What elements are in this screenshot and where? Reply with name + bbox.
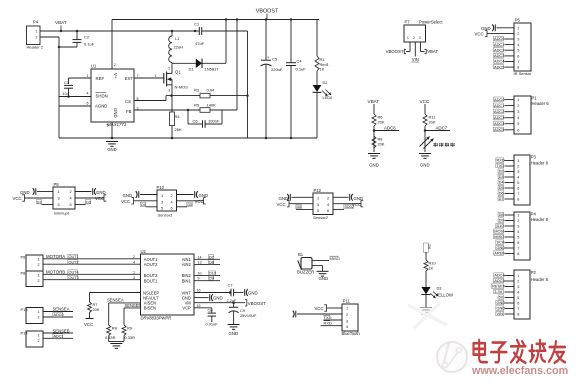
svg-text:U2: U2 — [141, 249, 147, 254]
svg-text:7: 7 — [517, 247, 519, 251]
svg-text:VCC: VCC — [95, 196, 104, 201]
wire P9 pin4 VCC — [75, 197, 104, 199]
svg-text:1: 1 — [517, 26, 519, 30]
svg-text:AREF: AREF — [494, 251, 505, 256]
wire C1 right to riser — [202, 30, 248, 32]
wire P1 pin5 ADC4 — [505, 123, 515, 125]
svg-text:VCC: VCC — [121, 199, 130, 204]
svg-text:ADC4: ADC4 — [494, 59, 505, 64]
net label D4 at P3 — [498, 180, 504, 184]
svg-text:ADC0: ADC0 — [494, 36, 505, 41]
wire P5 pin6 ADC3 — [505, 55, 515, 57]
capacitor C4 0.1uF — [290, 20, 292, 63]
svg-text:RESET: RESET — [492, 284, 506, 289]
svg-text:Header 2: Header 2 — [27, 44, 44, 49]
resistor R1 1K — [318, 19, 320, 21]
wire P10 pin1 GND — [140, 194, 157, 196]
ground below R8 R9 — [109, 341, 124, 343]
LED D3 YELLOW — [421, 287, 430, 294]
wire P2 pin8 VIN — [505, 313, 515, 315]
svg-text:2: 2 — [168, 67, 170, 71]
svg-text:47uF: 47uF — [195, 41, 205, 46]
svg-text:20K: 20K — [378, 120, 385, 125]
net label ADC2 at P5 — [493, 48, 503, 52]
svg-text:CS: CS — [125, 99, 131, 104]
ground below divider right — [419, 153, 431, 155]
connector P7 PowerSelect — [404, 25, 426, 42]
svg-text:D4: D4 — [141, 203, 146, 207]
svg-text:GND: GND — [229, 331, 239, 336]
wire NSLEEP to R7 — [90, 292, 141, 294]
svg-text:D10: D10 — [496, 223, 504, 228]
svg-text:6: 6 — [517, 241, 519, 245]
wire P2 pin6 GND — [505, 302, 515, 304]
svg-text:Interrupt: Interrupt — [54, 210, 70, 215]
wire P4 pin2 to ground rail — [40, 36, 59, 38]
wire P4b pin7 GND — [505, 247, 515, 249]
svg-text:1: 1 — [87, 74, 89, 78]
svg-text:P1: P1 — [532, 96, 538, 101]
svg-text:1: 1 — [161, 194, 163, 198]
svg-text:2: 2 — [517, 104, 519, 108]
svg-text:3: 3 — [133, 276, 135, 280]
capacitor C1 47uF — [194, 30, 197, 33]
wire P11 RXD — [321, 325, 343, 327]
svg-text:R9: R9 — [127, 326, 132, 331]
watermark white cross — [408, 305, 447, 325]
svg-text:5: 5 — [517, 122, 519, 126]
label photoresistor chinese — [434, 143, 438, 145]
svg-text:FB: FB — [126, 109, 132, 114]
svg-text:GND: GND — [496, 300, 505, 305]
svg-text:D10: D10 — [209, 272, 216, 276]
net label ADC4 at P1 — [493, 121, 503, 125]
svg-text:5: 5 — [58, 203, 60, 207]
svg-text:3: 3 — [517, 225, 519, 229]
svg-text:PowerSelect: PowerSelect — [419, 20, 443, 25]
svg-text:SHDN: SHDN — [96, 94, 108, 99]
svg-text:3: 3 — [517, 170, 519, 174]
resistor R8 0.33R — [107, 325, 111, 336]
svg-text:BISEN: BISEN — [144, 305, 156, 310]
photoresistor — [420, 137, 430, 147]
svg-text:ADC5: ADC5 — [494, 127, 504, 132]
svg-text:8: 8 — [517, 66, 519, 70]
svg-text:R4: R4 — [175, 114, 181, 119]
svg-text:D9: D9 — [499, 218, 504, 223]
svg-text:ADC0: ADC0 — [494, 97, 505, 102]
net label ADC0 at P5 — [493, 36, 503, 40]
net label ADC5 at P5 — [493, 65, 503, 69]
connector P4b Header 8 — [514, 212, 530, 260]
wire VCP to C8 — [194, 307, 212, 309]
svg-text:16: 16 — [197, 289, 201, 293]
wire P5 pin3 ADC0 — [505, 38, 515, 40]
connector P11 BlueTooth — [342, 304, 358, 331]
svg-text:4: 4 — [327, 203, 329, 207]
svg-text:C3: C3 — [64, 80, 69, 85]
wire P3 pin8 D7 — [505, 198, 515, 200]
svg-text:P4: P4 — [33, 20, 39, 25]
svg-text:4: 4 — [70, 197, 72, 201]
svg-text:4: 4 — [87, 92, 89, 96]
svg-text:5: 5 — [517, 236, 519, 240]
svg-text:TXD: TXD — [496, 163, 504, 168]
resistor R9 0.33R — [122, 325, 126, 336]
svg-text:D6: D6 — [427, 245, 431, 250]
wire MOTORB OUT3 — [43, 279, 141, 281]
wire P2 pin7 GND — [505, 308, 515, 310]
net label ADC2 at P1 — [493, 109, 503, 113]
svg-text:2: 2 — [70, 190, 72, 194]
svg-text:P5: P5 — [515, 18, 521, 23]
svg-text:4: 4 — [517, 43, 519, 47]
svg-text:2: 2 — [413, 36, 415, 40]
net label ADC4 at P5 — [493, 59, 503, 63]
wire P12 pin4 VCC — [333, 203, 361, 205]
wire P10 pin2 GND — [177, 194, 194, 196]
svg-text:OUT2: OUT2 — [69, 260, 79, 264]
svg-text:1: 1 — [407, 36, 409, 40]
svg-text:SENSEA: SENSEA — [107, 298, 124, 303]
svg-text:TXD: TXD — [324, 315, 332, 320]
wire Q1 source node — [171, 85, 173, 96]
wire REF to C3 — [69, 77, 92, 79]
svg-text:7: 7 — [137, 74, 139, 78]
svg-text:4: 4 — [517, 230, 519, 234]
wire P12 pin1 GND — [292, 196, 314, 198]
svg-text:AGND: AGND — [95, 104, 107, 109]
svg-text:GND: GND — [113, 108, 118, 118]
svg-text:P14: P14 — [21, 331, 29, 336]
svg-text:1: 1 — [517, 159, 519, 163]
svg-text:4: 4 — [133, 260, 135, 264]
wire VINT line — [194, 292, 230, 294]
svg-text:MOSI: MOSI — [494, 229, 504, 234]
net label SCK at P4b — [496, 240, 504, 244]
svg-text:R5: R5 — [194, 103, 200, 108]
capacitor C5 220uF — [265, 20, 267, 61]
svg-text:1: 1 — [517, 274, 519, 278]
svg-text:+: + — [267, 55, 270, 60]
svg-text:5V: 5V — [499, 295, 504, 300]
svg-text:C8: C8 — [208, 308, 213, 313]
net label D6 at LED column — [423, 243, 428, 252]
svg-text:VIN: VIN — [412, 57, 419, 62]
svg-text:C1: C1 — [194, 22, 200, 27]
svg-text:VBAT: VBAT — [368, 99, 380, 104]
svg-text:1: 1 — [517, 98, 519, 102]
resistor R10 1K — [424, 260, 428, 271]
svg-text:B1: B1 — [298, 252, 304, 257]
net label ADC3 at P1 — [493, 115, 503, 119]
wire P4b pin1 D8 — [505, 214, 515, 216]
net label ADC5 at P2 — [494, 278, 504, 282]
svg-text:MISO: MISO — [494, 234, 504, 239]
wire VBOOST top rail — [112, 19, 319, 21]
wire P2 pin4 3.3V — [505, 291, 515, 293]
net label ADC4 at P2 — [494, 273, 504, 277]
ground symbol below U1 — [111, 137, 114, 140]
wire to R10 — [425, 252, 427, 260]
wire P12 pin2 GND — [333, 196, 349, 198]
watermark text zi — [493, 343, 505, 350]
svg-text:Sensor2: Sensor2 — [313, 215, 329, 220]
svg-text:22uH: 22uH — [174, 45, 184, 50]
net label GND at P2 — [496, 300, 504, 304]
svg-text:L1: L1 — [175, 36, 180, 41]
svg-text:BUZZER: BUZZER — [297, 269, 314, 274]
net label ADC0 at P1 — [493, 97, 503, 101]
svg-text:GND: GND — [369, 163, 379, 168]
svg-text:ADC1: ADC1 — [494, 42, 504, 47]
wire P11 TXD — [324, 319, 343, 321]
svg-text:0.04: 0.04 — [207, 88, 216, 93]
wire P5 pin7 ADC4 — [505, 61, 515, 63]
svg-text:P8: P8 — [21, 271, 27, 276]
svg-text:1K: 1K — [429, 266, 434, 271]
net label TXD at P3 — [496, 163, 504, 167]
net label 5V at P2 — [498, 295, 504, 299]
net label D3 at P3 — [498, 174, 504, 178]
node ADC6 — [373, 126, 375, 152]
ground below D3 faded by watermark — [420, 307, 432, 309]
svg-text:P3: P3 — [531, 155, 537, 160]
svg-text:GND: GND — [319, 276, 329, 281]
svg-text:5: 5 — [517, 181, 519, 185]
svg-text:VCC: VCC — [315, 306, 324, 311]
wire P1 pin2 ADC1 — [505, 105, 515, 107]
resistor R11 20K — [423, 114, 427, 126]
wire P7 pin1 to VBOOST — [409, 42, 411, 52]
svg-text:13: 13 — [198, 260, 202, 264]
wire P1 pin6 ADC5 — [505, 129, 515, 131]
wire P12 pin5 D6 — [296, 208, 313, 210]
svg-text:MISO: MISO — [330, 256, 340, 261]
svg-text:D7: D7 — [499, 196, 504, 201]
svg-text:GND: GND — [420, 163, 430, 168]
wire SENSEB stub — [43, 332, 73, 334]
wire U1 GND pin to rail — [111, 122, 113, 138]
node ADC7 — [424, 126, 426, 152]
wire MOTORA OUT2 — [43, 263, 141, 265]
svg-text:D4: D4 — [499, 180, 505, 185]
wire AISEN SENSEA to R8 — [109, 302, 141, 304]
svg-text:2: 2 — [38, 316, 40, 320]
wire P1 pin3 ADC2 — [505, 111, 515, 113]
net label GND at P2 — [496, 306, 504, 310]
wire buzzer to ground — [312, 265, 323, 267]
svg-text:BOUT1: BOUT1 — [144, 278, 158, 283]
svg-text:5: 5 — [317, 209, 319, 213]
svg-text:14: 14 — [198, 255, 202, 259]
svg-text:2: 2 — [36, 36, 38, 40]
svg-text:3: 3 — [517, 38, 519, 42]
svg-text:15: 15 — [197, 304, 201, 308]
svg-text:U1: U1 — [91, 64, 97, 69]
svg-text:D1: D1 — [189, 67, 195, 72]
svg-text:VBAT: VBAT — [427, 49, 438, 54]
watermark text dian — [474, 342, 486, 344]
wire ADC1 stub — [43, 337, 73, 339]
svg-text:P10: P10 — [157, 185, 165, 190]
wire U2 GND pin flag — [194, 297, 209, 299]
connector P14 sense B header — [26, 331, 43, 347]
wire MOTORB OUT4 — [43, 273, 141, 275]
connector P1 Header 6 — [514, 96, 531, 134]
svg-text:6: 6 — [517, 54, 519, 58]
wire P5 pin5 ADC2 — [505, 49, 515, 51]
wire P3 pin7 D6 — [505, 193, 515, 195]
svg-text:D6: D6 — [297, 205, 302, 209]
svg-text:P2: P2 — [531, 270, 537, 275]
svg-text:4: 4 — [517, 116, 519, 120]
svg-text:P12: P12 — [314, 188, 322, 193]
svg-text:ADC4: ADC4 — [494, 273, 505, 278]
svg-text:GND: GND — [213, 296, 223, 301]
svg-text:ADC6: ADC6 — [384, 125, 396, 130]
net label D2 at P3 — [498, 169, 504, 173]
svg-text:BlueTooth: BlueTooth — [342, 331, 361, 336]
wire P10 pin5 D4 — [146, 206, 157, 208]
net label 3.3V at P2 — [494, 289, 504, 293]
svg-text:GND: GND — [496, 245, 505, 250]
svg-text:2: 2 — [346, 313, 348, 317]
svg-text:N-MOS: N-MOS — [175, 85, 189, 90]
svg-text:ADC5: ADC5 — [494, 64, 504, 69]
net label MISO at P4b — [494, 234, 504, 238]
connector P9 Interrupt header — [53, 187, 75, 209]
svg-text:ADC2: ADC2 — [494, 47, 504, 52]
svg-text:Header 8: Header 8 — [531, 277, 549, 282]
capacitor C9 25V10UF — [233, 303, 235, 307]
wire P12 pin3 VCC — [289, 203, 313, 205]
svg-text:D9: D9 — [209, 277, 214, 281]
svg-text:ADC1: ADC1 — [54, 335, 64, 339]
capacitor C6 100nF — [187, 110, 189, 124]
svg-text:1: 1 — [155, 74, 157, 78]
svg-text:3: 3 — [517, 285, 519, 289]
wire FB line — [134, 109, 200, 111]
svg-text:6: 6 — [87, 102, 89, 106]
wire P4b pin5 MISO — [505, 236, 515, 238]
connector P2 Header 8 — [514, 270, 530, 319]
svg-text:1: 1 — [346, 306, 348, 310]
svg-text:VCC: VCC — [13, 196, 22, 201]
watermark text shao — [531, 345, 533, 356]
svg-text:3: 3 — [168, 89, 170, 93]
svg-text:0.33R: 0.33R — [125, 335, 136, 340]
wire ADC0 stub — [43, 316, 73, 318]
svg-text:1: 1 — [38, 310, 40, 314]
wire P3 pin4 D3 — [505, 176, 515, 178]
svg-text:D6: D6 — [499, 191, 504, 196]
buzzer B1 — [301, 258, 312, 270]
svg-text:D5: D5 — [188, 203, 193, 207]
svg-text:1: 1 — [317, 197, 319, 201]
wire P7 pin3 to VBAT — [420, 42, 422, 52]
net label ADC1 at P1 — [493, 103, 503, 107]
net label MOSI at P4b — [494, 229, 504, 233]
wire VM to VBOOST — [194, 302, 245, 304]
svg-text:GND: GND — [96, 190, 106, 195]
svg-text:ADC2: ADC2 — [494, 109, 504, 114]
svg-text:EXT: EXT — [125, 76, 134, 81]
svg-text:2: 2 — [517, 219, 519, 223]
svg-text:2: 2 — [38, 279, 40, 283]
net label VIN at P2 — [496, 311, 504, 315]
wire P2 pin3 RESET — [505, 286, 515, 288]
svg-text:YELLOW: YELLOW — [436, 293, 454, 298]
net label D7 at P3 — [498, 196, 504, 200]
net label D9 at P4b — [498, 218, 504, 222]
net label ADC3 at P5 — [493, 53, 503, 57]
wire bottom ground rail — [59, 137, 317, 139]
wire MOTORA OUT1 — [43, 258, 141, 260]
svg-text:R3: R3 — [194, 88, 200, 93]
net label D5 at P3 — [498, 185, 504, 189]
svg-text:GND: GND — [107, 147, 117, 152]
svg-text:P6: P6 — [21, 255, 27, 260]
svg-text:VCC: VCC — [277, 202, 286, 207]
svg-text:6: 6 — [171, 206, 173, 210]
LED D2 arrows — [322, 91, 327, 96]
svg-text:ADC3: ADC3 — [494, 53, 504, 58]
svg-text:VBOOST: VBOOST — [386, 49, 404, 54]
svg-text:10: 10 — [198, 272, 202, 276]
motor driver U2 DRV8833PWPR — [141, 254, 195, 315]
wire AGND — [59, 105, 91, 107]
svg-text:VBOOST: VBOOST — [248, 301, 266, 306]
wire P9 pin2 GND — [75, 191, 92, 193]
svg-text:GND: GND — [354, 196, 364, 201]
svg-text:3: 3 — [161, 200, 163, 204]
wire P3 pin6 D5 — [505, 187, 515, 189]
svg-text:OUT1: OUT1 — [69, 255, 79, 259]
svg-text:GND: GND — [123, 193, 133, 198]
wire P11 GND long — [297, 313, 342, 315]
wire P10 pin4 VCC — [177, 200, 204, 202]
svg-text:7: 7 — [517, 192, 519, 196]
wire P4b pin6 SCK — [505, 242, 515, 244]
wire P9 pin5 D2 — [42, 204, 54, 206]
svg-text:4: 4 — [171, 200, 173, 204]
svg-text:ADC5: ADC5 — [494, 278, 504, 283]
wire V+ riser — [111, 20, 113, 70]
svg-text:Header 8: Header 8 — [531, 217, 549, 222]
svg-text:www.elecfans.com: www.elecfans.com — [471, 365, 568, 377]
svg-text:3: 3 — [419, 36, 421, 40]
svg-text:5: 5 — [161, 206, 163, 210]
wire R10 to D3 — [425, 271, 427, 287]
svg-text:SENSEB: SENSEB — [125, 303, 142, 308]
inductor L1 22uH — [171, 31, 173, 36]
svg-text:C5: C5 — [272, 57, 278, 62]
svg-text:25V10UF: 25V10UF — [240, 313, 257, 318]
svg-text:C6: C6 — [193, 118, 199, 123]
wire P3 pin2 TXD — [505, 165, 515, 167]
resistor R5 140K — [200, 108, 210, 113]
svg-text:3: 3 — [346, 319, 348, 323]
svg-text:2: 2 — [517, 32, 519, 36]
svg-text:220uF: 220uF — [271, 67, 283, 72]
watermark text fa — [511, 345, 526, 347]
connector P12 Sensor2 header — [313, 193, 333, 215]
svg-text:C7: C7 — [228, 283, 234, 288]
svg-text:8: 8 — [517, 198, 519, 202]
svg-text:GND: GND — [496, 306, 505, 311]
svg-text:P7: P7 — [405, 20, 411, 25]
